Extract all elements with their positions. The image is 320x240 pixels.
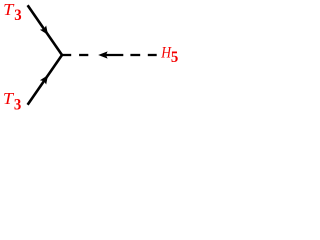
scalar dashed line H5 : dash segment 4 [148, 54, 157, 56]
fermion line T3 (top, into vertex) [28, 5, 62, 55]
scalar dashed line H5 : dash segment 1 [62, 54, 71, 56]
arrowhead on scalar line (pointing left toward vertex) [98, 51, 107, 58]
arrowhead on top fermion line [40, 25, 48, 34]
scalar dashed line H5 : dash segment 3 [130, 54, 140, 56]
scalar dashed line H5 : arrow stem segment [103, 54, 123, 56]
svg-text:5: 5 [171, 49, 178, 66]
fermion line T3 (bottom, into vertex) [28, 55, 62, 105]
scalar dashed line H5 : dash segment 2 [79, 54, 88, 56]
svg-text:3: 3 [14, 7, 21, 24]
svg-text:3: 3 [14, 96, 21, 113]
arrowhead on bottom fermion line [40, 75, 48, 84]
